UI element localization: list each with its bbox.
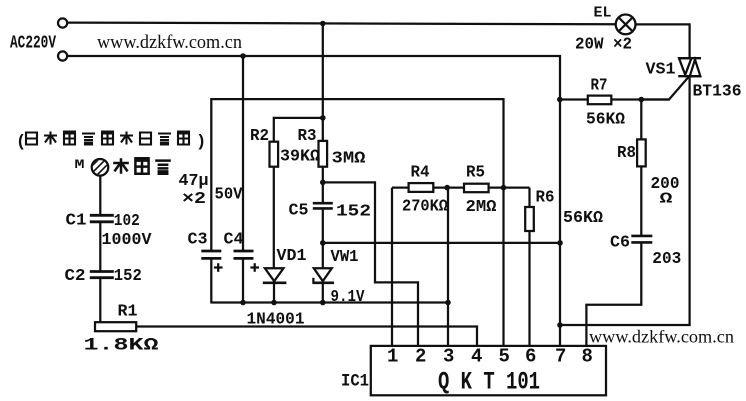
resistor R2: [270, 142, 279, 167]
svg-text:2: 2: [415, 346, 426, 368]
svg-text:Ω: Ω: [660, 191, 673, 208]
svg-text:(: (: [16, 133, 26, 152]
plus sign C3: [214, 263, 223, 272]
lamp EL: [616, 15, 636, 35]
resistor R1: [95, 322, 136, 331]
svg-text:1000V: 1000V: [102, 231, 153, 250]
node junction C4 bottom: [240, 300, 246, 306]
svg-text:3MΩ: 3MΩ: [332, 150, 366, 169]
terminal circle top: [58, 18, 67, 27]
svg-text:www.dzkfw.com.cn: www.dzkfw.com.cn: [589, 327, 734, 347]
capacitor C5: [313, 203, 333, 208]
resistor R5: [464, 184, 489, 193]
svg-text:5: 5: [499, 346, 510, 368]
svg-text:1.8KΩ: 1.8KΩ: [84, 336, 160, 356]
wire pin3: [447, 188, 449, 346]
svg-text:56KΩ: 56KΩ: [586, 111, 625, 130]
svg-text:47μ: 47μ: [179, 172, 209, 191]
wire R4 R5 net: [392, 186, 530, 188]
svg-text:R1: R1: [118, 303, 138, 322]
svg-text:×2: ×2: [182, 190, 206, 209]
svg-text:M: M: [75, 157, 85, 172]
fake cjk note chars: [26, 133, 37, 145]
svg-text:C3: C3: [188, 231, 208, 250]
svg-text:152: 152: [114, 267, 142, 286]
resistor R4: [409, 183, 434, 192]
node junction C5 bottom VW1: [320, 240, 326, 246]
svg-text:): ): [196, 133, 206, 152]
wire R2 jog: [274, 118, 323, 142]
svg-text:Q K T 101: Q K T 101: [438, 368, 540, 397]
svg-text:56KΩ: 56KΩ: [563, 209, 603, 228]
capacitor C4: [234, 251, 254, 258]
wire pin1: [391, 188, 393, 346]
triac VS1: [678, 58, 701, 76]
wire VW1 node to N line: [323, 242, 560, 244]
svg-text:50V: 50V: [215, 186, 244, 205]
svg-text:39KΩ: 39KΩ: [280, 148, 320, 167]
svg-text:C4: C4: [224, 231, 244, 250]
wire VD1 bottom: [273, 283, 275, 304]
svg-text:6: 6: [525, 346, 536, 368]
wire AC line N: [67, 56, 560, 346]
svg-text:VD1: VD1: [277, 247, 307, 266]
wire R1 to pin4: [136, 327, 477, 346]
wire AC line L top: [67, 23, 616, 25]
resistor R6: [528, 188, 530, 207]
node junction R7 right gate: [639, 97, 645, 103]
wire supply bottom rail: [211, 301, 448, 303]
node junction R4 R5: [444, 185, 450, 191]
wire C1 to C2: [99, 223, 101, 272]
wire C4 bottom: [242, 260, 244, 304]
svg-text:EL: EL: [594, 5, 612, 22]
wire R2 to VD1: [273, 167, 275, 269]
node junction rail to pin3: [445, 300, 451, 306]
wire pin5: [502, 188, 504, 346]
wire VW1 bottom: [322, 283, 324, 304]
node junction R2 R3: [320, 115, 326, 121]
svg-text:R7: R7: [591, 77, 608, 96]
wire triac gate: [641, 77, 688, 100]
wire R8 to C6: [640, 166, 642, 235]
wire C2 to R1: [95, 279, 100, 327]
resistor R7: [588, 96, 612, 105]
capacitor C3: [201, 251, 221, 258]
plus sign C4: [250, 263, 259, 272]
svg-text:8: 8: [582, 346, 593, 368]
node junction VW1 bottom: [320, 300, 326, 306]
wire C4 drop from N: [242, 56, 244, 250]
IC box QKT101: [371, 346, 606, 395]
node junction R7 left: [557, 97, 563, 103]
zener VW1: [312, 268, 334, 283]
wire supply top rail: [211, 99, 503, 250]
svg-text:R4: R4: [411, 164, 430, 183]
wire lamp to triac: [636, 24, 690, 57]
svg-text:VW1: VW1: [331, 248, 359, 267]
svg-text:9.1V: 9.1V: [331, 288, 366, 307]
svg-text:270KΩ: 270KΩ: [402, 198, 448, 217]
wire C5 to VW1: [322, 210, 324, 269]
wire R8 top: [640, 100, 642, 140]
wire R7 net: [560, 98, 669, 100]
fake cjk touch label: [113, 158, 129, 174]
wire C3 bottom: [210, 260, 212, 304]
resistor R3: [319, 141, 328, 167]
wire C6 to pin8: [586, 244, 641, 346]
resistor R8: [637, 139, 646, 166]
svg-text:4: 4: [471, 346, 482, 368]
touch plate: [88, 154, 112, 183]
node junction on L at x=322.8: [320, 21, 326, 27]
wire pin2 path from C5 node: [323, 182, 418, 346]
capacitor C6: [631, 236, 652, 243]
svg-text:VS1: VS1: [646, 61, 676, 80]
node junction R5 right: [501, 185, 507, 191]
node junction on N at y=242.9: [557, 240, 563, 246]
svg-text:152: 152: [336, 203, 371, 222]
wire R3 column from L: [322, 23, 324, 141]
svg-text:20W ×2: 20W ×2: [575, 36, 632, 55]
svg-text:R2: R2: [250, 127, 269, 146]
svg-text:3: 3: [443, 346, 454, 368]
svg-text:AC220V: AC220V: [10, 34, 56, 54]
node junction triac wire on N line: [557, 322, 563, 328]
svg-text:2MΩ: 2MΩ: [466, 198, 497, 217]
svg-text:R6: R6: [536, 189, 555, 208]
node junction on N at x=243: [240, 53, 246, 59]
svg-text:1: 1: [387, 346, 398, 368]
svg-text:R3: R3: [298, 127, 317, 146]
svg-text:BT136: BT136: [693, 83, 742, 102]
terminal circle bottom: [58, 51, 67, 60]
svg-text:C2: C2: [65, 267, 86, 286]
svg-text:IC1: IC1: [341, 372, 369, 392]
node junction VD1 bottom: [271, 300, 277, 306]
svg-text:203: 203: [652, 250, 681, 269]
svg-text:7: 7: [555, 346, 566, 368]
svg-text:www.dzkfw.com.cn: www.dzkfw.com.cn: [97, 32, 242, 53]
svg-text:R8: R8: [617, 144, 636, 163]
diode VD1: [263, 268, 287, 283]
wire R3 to C5: [322, 167, 324, 203]
svg-text:C1: C1: [66, 212, 87, 231]
svg-text:C6: C6: [610, 234, 630, 253]
capacitor C1: [90, 215, 114, 222]
svg-text:R5: R5: [466, 164, 485, 183]
wire pin6: [528, 231, 530, 346]
svg-text:C5: C5: [289, 202, 309, 221]
wire touch to C1: [99, 176, 101, 215]
svg-text:102: 102: [114, 212, 140, 231]
node junction R3 bottom: [320, 180, 326, 186]
wire triac MT1 down and across to pin7 line: [560, 77, 690, 325]
capacitor C2: [90, 272, 114, 278]
